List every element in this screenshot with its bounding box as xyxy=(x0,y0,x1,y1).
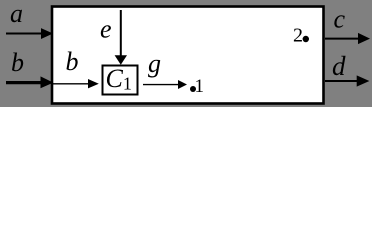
svg-text:g: g xyxy=(148,49,161,78)
svg-text:c: c xyxy=(334,5,346,34)
output arrow c xyxy=(325,33,370,44)
svg-text:b: b xyxy=(66,47,79,76)
block C1 xyxy=(103,66,138,95)
input arrow b (thick) xyxy=(6,76,53,88)
wire g from C1 to node 1 xyxy=(143,80,187,89)
wire b to C1 xyxy=(53,79,99,88)
input arrow a xyxy=(6,28,53,39)
system block (outer box) xyxy=(52,7,324,104)
node 2 dot xyxy=(303,36,309,42)
svg-text:2: 2 xyxy=(293,25,303,47)
output arrow d xyxy=(325,75,369,86)
svg-text:b: b xyxy=(11,48,24,77)
svg-text:d: d xyxy=(332,51,346,81)
svg-text:a: a xyxy=(10,0,23,28)
node 1 dot xyxy=(190,86,196,92)
svg-text:1: 1 xyxy=(195,76,205,97)
svg-text:e: e xyxy=(100,14,112,43)
input arrow e (vertical into C1) xyxy=(115,10,127,65)
